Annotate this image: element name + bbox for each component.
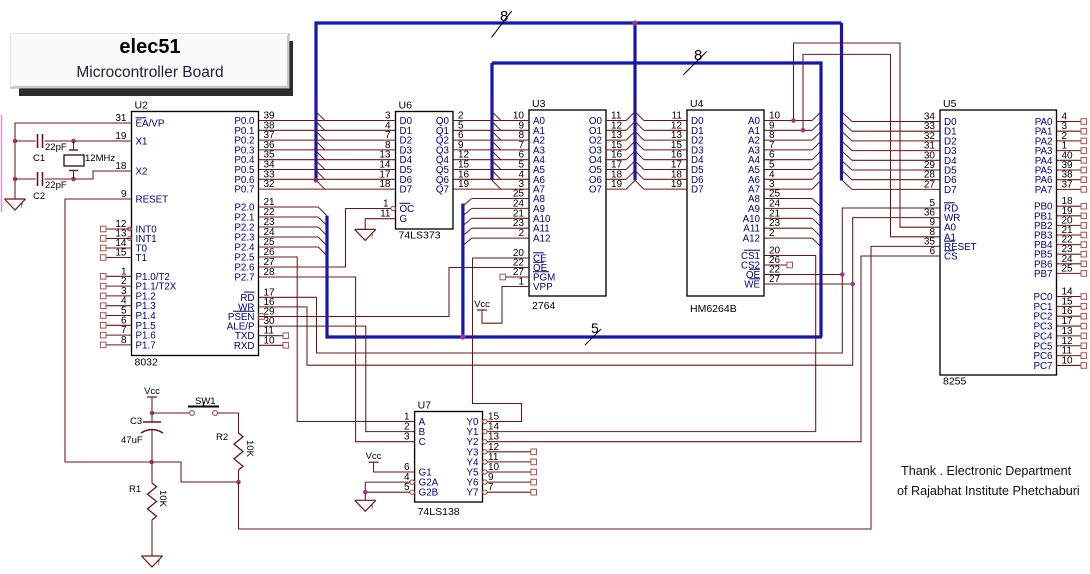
pin bubble U6 OC bbox=[391, 206, 395, 210]
ground at U7 G2 bbox=[355, 500, 376, 511]
svg-text:C1: C1 bbox=[33, 153, 45, 164]
svg-text:RESET: RESET bbox=[136, 195, 169, 206]
wires AD0-AD7 P0 U2 to U6 bbox=[259, 121, 396, 190]
U2 PSEN pin terminal square bbox=[259, 314, 265, 320]
wire U7 G2A G2B to ground bbox=[365, 482, 410, 500]
wire C3 to node bbox=[151, 430, 153, 462]
bus entries U4 A0-A7 into x821 bbox=[812, 112, 821, 189]
svg-text:G2B: G2B bbox=[419, 488, 439, 499]
wire U4 WE branch to WR riser bbox=[764, 283, 853, 285]
svg-text:PC7: PC7 bbox=[1033, 361, 1052, 372]
bus width label 5 on A8-A12 bus bbox=[585, 320, 601, 345]
svg-text:27: 27 bbox=[924, 179, 936, 190]
capacitor C1 22pF bbox=[33, 134, 67, 164]
svg-text:7: 7 bbox=[488, 482, 494, 493]
title text Microcontroller Board bbox=[76, 64, 223, 81]
svg-text:18: 18 bbox=[115, 161, 127, 172]
bus address: horizontal y63 and right vertical x821 down to low bus bbox=[492, 63, 821, 337]
wire U4 CS1 to U7 Y1 bbox=[487, 256, 816, 432]
Vcc symbol at U3 VPP bbox=[474, 299, 490, 310]
svg-text:U4: U4 bbox=[690, 98, 704, 110]
bus data: top horizontal + left vertical drop at x316 bbox=[316, 23, 842, 180]
wire node link R1-R2 bbox=[152, 462, 239, 482]
wire U3 CE to U7 Y0 bbox=[473, 258, 530, 422]
svg-text:Vcc: Vcc bbox=[144, 386, 160, 397]
svg-text:T1: T1 bbox=[136, 253, 147, 264]
svg-text:19: 19 bbox=[671, 179, 683, 190]
svg-text:HM6264B: HM6264B bbox=[690, 303, 737, 315]
IC U5 8255 PPI bbox=[924, 98, 1073, 388]
junction U4 OE on RD riser bbox=[840, 272, 845, 277]
svg-text:5: 5 bbox=[591, 320, 599, 336]
bus entries U4 A8-A12 into x821 bbox=[812, 199, 821, 247]
note text thanks line1 bbox=[901, 464, 1072, 478]
wire U5 CS to U7 Y2 bbox=[487, 256, 940, 442]
IC U2 8032 microcontroller bbox=[115, 100, 275, 369]
bus entries P0 rows at x316 bbox=[316, 112, 325, 189]
svg-text:19: 19 bbox=[611, 179, 623, 190]
junction reset node bbox=[149, 460, 154, 465]
wires U7 Y3-Y7 stubs with terminals bbox=[487, 449, 536, 495]
svg-text:18: 18 bbox=[379, 179, 391, 190]
scan edge artifact line bbox=[1, 115, 3, 212]
wire WR: U2 WR to U5 WR and U4 WE bbox=[259, 218, 941, 366]
IC U4 HM6264B SRAM bbox=[671, 98, 781, 315]
wire U7 G1 to Vcc bbox=[374, 462, 415, 472]
svg-text:22pF: 22pF bbox=[45, 142, 67, 153]
svg-text:10K: 10K bbox=[244, 440, 255, 458]
wire reset to U5 RESET bbox=[239, 246, 941, 529]
svg-text:elec51: elec51 bbox=[119, 36, 180, 58]
svg-text:74LS373: 74LS373 bbox=[399, 230, 441, 242]
svg-text:Q7: Q7 bbox=[436, 185, 449, 196]
wire P2.7 to U7 C bbox=[259, 277, 415, 442]
resistor R2 10K bbox=[216, 432, 255, 482]
svg-text:Microcontroller Board: Microcontroller Board bbox=[76, 64, 223, 81]
svg-text:25: 25 bbox=[1062, 263, 1074, 274]
svg-text:X1: X1 bbox=[136, 137, 148, 148]
wire X1 row with C1 bbox=[15, 140, 132, 142]
bus data: right vertical drop x841 to U5 data entries bbox=[840, 23, 843, 181]
svg-text:of Rajabhat Institute Phetchab: of Rajabhat Institute Phetchaburi bbox=[897, 484, 1080, 498]
bus entries U5 D rows from x841 bbox=[842, 112, 853, 189]
junction data bus bottom x316 bbox=[314, 178, 319, 183]
junction crystal bottom bbox=[71, 177, 76, 182]
svg-text:5: 5 bbox=[404, 482, 410, 493]
svg-text:3: 3 bbox=[404, 432, 410, 443]
svg-text:8255: 8255 bbox=[943, 376, 967, 388]
wire U4 OE branch to RD riser bbox=[764, 274, 842, 276]
svg-text:A12: A12 bbox=[743, 234, 760, 245]
junction R2 bottom bbox=[236, 480, 241, 485]
svg-text:P2.7: P2.7 bbox=[234, 273, 254, 284]
IC U6 74LS373 latch bbox=[379, 100, 469, 242]
svg-text:31: 31 bbox=[115, 113, 127, 124]
pin bubbles INT0 INT1 U2 bbox=[128, 227, 132, 240]
svg-text:P1.7: P1.7 bbox=[136, 340, 156, 351]
svg-text:10: 10 bbox=[1062, 355, 1074, 366]
ground below R1 bbox=[142, 556, 163, 567]
switch SW1 pushbutton bbox=[188, 396, 219, 415]
note text thanks line2 bbox=[897, 484, 1080, 498]
svg-text:A12: A12 bbox=[533, 234, 550, 245]
wires U4 A8-A12 to address bus entries bbox=[764, 199, 812, 239]
svg-text:PA7: PA7 bbox=[1035, 185, 1053, 196]
svg-text:D7: D7 bbox=[400, 185, 413, 196]
svg-text:37: 37 bbox=[1062, 179, 1074, 190]
svg-text:G: G bbox=[400, 214, 408, 225]
svg-text:Y7: Y7 bbox=[467, 488, 479, 499]
svg-text:CS: CS bbox=[944, 252, 958, 263]
wire SW1 left lead bbox=[152, 412, 190, 414]
svg-text:U6: U6 bbox=[399, 100, 413, 112]
wires U4 D0-D7 from data bus entries bbox=[644, 121, 687, 190]
IC U3 2764 EPROM bbox=[513, 98, 623, 312]
svg-text:6: 6 bbox=[929, 246, 935, 257]
junction SW1 tap bbox=[150, 411, 155, 416]
wire U4 A0 to U5 A0 over top bbox=[794, 43, 941, 227]
wire U3 PGM stub with terminal bbox=[500, 274, 529, 280]
wire ALE to U7 B bbox=[259, 326, 415, 432]
svg-text:X2: X2 bbox=[136, 167, 148, 178]
wire X2 row with C2 bbox=[15, 171, 132, 179]
bus address A8-A12 branch vertical x462.9 to U3 entries bbox=[461, 204, 464, 338]
svg-text:P0.7: P0.7 bbox=[234, 185, 254, 196]
svg-text:1: 1 bbox=[518, 277, 524, 288]
title box shadow bbox=[19, 41, 293, 96]
bus address: A0-A7 collector vertical x492 bbox=[490, 63, 493, 180]
resistor R1 10K bbox=[129, 462, 168, 556]
svg-text:R1: R1 bbox=[129, 484, 141, 495]
ground left rail bbox=[5, 199, 26, 210]
svg-text:VPP: VPP bbox=[533, 282, 553, 293]
svg-text:19: 19 bbox=[458, 179, 470, 190]
junction U4 WE on WR riser bbox=[850, 282, 855, 287]
bus entries Q/A rows at x492 bbox=[492, 112, 501, 189]
junction C1 rail bbox=[13, 139, 18, 144]
svg-text:EA/VP: EA/VP bbox=[136, 119, 165, 130]
svg-text:10K: 10K bbox=[157, 490, 168, 508]
svg-text:19: 19 bbox=[115, 131, 127, 142]
svg-text:8: 8 bbox=[694, 47, 702, 64]
svg-text:2: 2 bbox=[518, 228, 524, 239]
svg-text:WE: WE bbox=[744, 280, 760, 291]
wire U4 A1 to U5 A1 over top bbox=[803, 54, 940, 236]
svg-text:8: 8 bbox=[121, 335, 127, 346]
svg-text:28: 28 bbox=[264, 267, 276, 278]
svg-text:C3: C3 bbox=[130, 416, 142, 427]
capacitor C2 22pF bbox=[33, 172, 67, 202]
svg-text:8032: 8032 bbox=[135, 357, 159, 369]
junction bus x462.9 at low address bus bbox=[460, 334, 465, 339]
title box panel bbox=[11, 34, 289, 88]
svg-text:74LS138: 74LS138 bbox=[418, 506, 460, 518]
wire RESET pin to RC node bbox=[65, 199, 152, 462]
wires U3 O0-O7 to data bus entries bbox=[606, 121, 626, 190]
svg-text:32: 32 bbox=[264, 179, 276, 190]
bus width label 8 on data bus bbox=[492, 8, 512, 37]
bus width label 8 on address bus bbox=[683, 47, 706, 75]
bus entries U3 O rows into x635 (left side) bbox=[626, 112, 635, 189]
junction U4 A0 bbox=[791, 118, 796, 123]
bus entries U3 A8-A12 from x462.9 bbox=[463, 199, 472, 246]
wire EA/VP to ground rail bbox=[15, 123, 132, 199]
svg-text:22pF: 22pF bbox=[45, 180, 67, 191]
svg-text:U2: U2 bbox=[135, 100, 149, 112]
wire U6 G to ground bbox=[365, 219, 395, 230]
wire U3 VPP to Vcc bbox=[482, 287, 529, 324]
svg-text:SW1: SW1 bbox=[195, 396, 216, 407]
U5 port pin stubs PA0-PC7 with terminals bbox=[1057, 119, 1087, 369]
crystal Y1 12MHz bbox=[64, 141, 115, 179]
wires U4 A0-A7 to address bus entries bbox=[764, 121, 812, 190]
wires P2.0-P2.4 U2 to bus entries bbox=[259, 207, 319, 247]
wires U5 D0-D7 from data bus entries bbox=[852, 122, 940, 190]
wire Vcc to C3 bbox=[151, 397, 153, 422]
U2 left pin stubs with terminals (INT0-T1,P1.0-P1.7) bbox=[100, 226, 131, 348]
svg-text:12MHz: 12MHz bbox=[85, 153, 115, 164]
svg-text:2764: 2764 bbox=[532, 300, 556, 312]
svg-text:RXD: RXD bbox=[234, 341, 255, 352]
svg-text:U3: U3 bbox=[532, 98, 546, 110]
junction C2 rail bbox=[13, 177, 18, 182]
svg-text:27: 27 bbox=[769, 274, 781, 285]
svg-text:11: 11 bbox=[380, 209, 391, 220]
svg-text:U7: U7 bbox=[418, 400, 432, 412]
bus address A8-A12: vertical x327 from P2 entries down to y337 bbox=[327, 216, 822, 337]
wires A0-A7 U6 Q to U3 A bbox=[453, 121, 529, 190]
IC U7 74LS138 decoder bbox=[404, 400, 500, 519]
svg-text:8: 8 bbox=[500, 8, 508, 25]
wire TXD stub bbox=[259, 333, 289, 339]
wire P2.5 to U7 A bbox=[259, 257, 415, 422]
svg-text:Vcc: Vcc bbox=[474, 299, 490, 310]
svg-text:9: 9 bbox=[121, 189, 127, 200]
wire P2.6 to U6 OC bbox=[259, 209, 391, 268]
bus entries P2.0-P2.4 into x327 bbox=[318, 207, 327, 256]
wires U3 A8-A12 from address bus entries bbox=[472, 199, 529, 239]
junction G2B bbox=[363, 490, 368, 495]
svg-text:D7: D7 bbox=[944, 185, 957, 196]
capacitor C3 47uF electrolytic bbox=[121, 416, 163, 446]
pin bubbles U7 G2A G2B bbox=[410, 480, 414, 495]
Vcc symbol reset circuit bbox=[144, 386, 160, 397]
svg-text:2: 2 bbox=[769, 228, 775, 239]
wire PSEN to U3 OE bbox=[259, 268, 530, 317]
wire U4 CS2 stub with terminal bbox=[764, 262, 793, 268]
svg-text:47uF: 47uF bbox=[121, 435, 143, 446]
bus entries U4 D rows from x635 (right side) bbox=[635, 112, 644, 189]
svg-text:C: C bbox=[419, 437, 426, 448]
pin bubbles U7 Y0-Y7 bbox=[483, 419, 487, 494]
title text elec51 bbox=[119, 36, 180, 58]
svg-text:U5: U5 bbox=[943, 98, 957, 110]
svg-text:Vcc: Vcc bbox=[366, 451, 382, 462]
svg-text:10: 10 bbox=[264, 335, 276, 346]
svg-text:Thank . Electronic Department: Thank . Electronic Department bbox=[901, 464, 1072, 478]
svg-text:R2: R2 bbox=[216, 432, 228, 443]
svg-text:O7: O7 bbox=[589, 185, 602, 196]
junction U4 A1 bbox=[801, 128, 806, 133]
svg-text:PB7: PB7 bbox=[1034, 269, 1053, 280]
ground at U6 G bbox=[355, 229, 376, 240]
bus data: vertical drop x635 to U3/U4 data entries bbox=[633, 23, 636, 180]
wire RXD stub bbox=[259, 343, 289, 349]
svg-text:D7: D7 bbox=[691, 185, 704, 196]
svg-text:C2: C2 bbox=[33, 191, 45, 202]
junction bus x635 top bbox=[632, 20, 637, 25]
svg-text:15: 15 bbox=[115, 248, 127, 259]
junction crystal top bbox=[71, 139, 76, 144]
wire RD: U2 RD to U5 RD and U4 OE bbox=[259, 208, 941, 353]
wire SW1 right to R2 bbox=[217, 413, 238, 433]
Vcc symbol at U7 G1 bbox=[366, 451, 382, 462]
